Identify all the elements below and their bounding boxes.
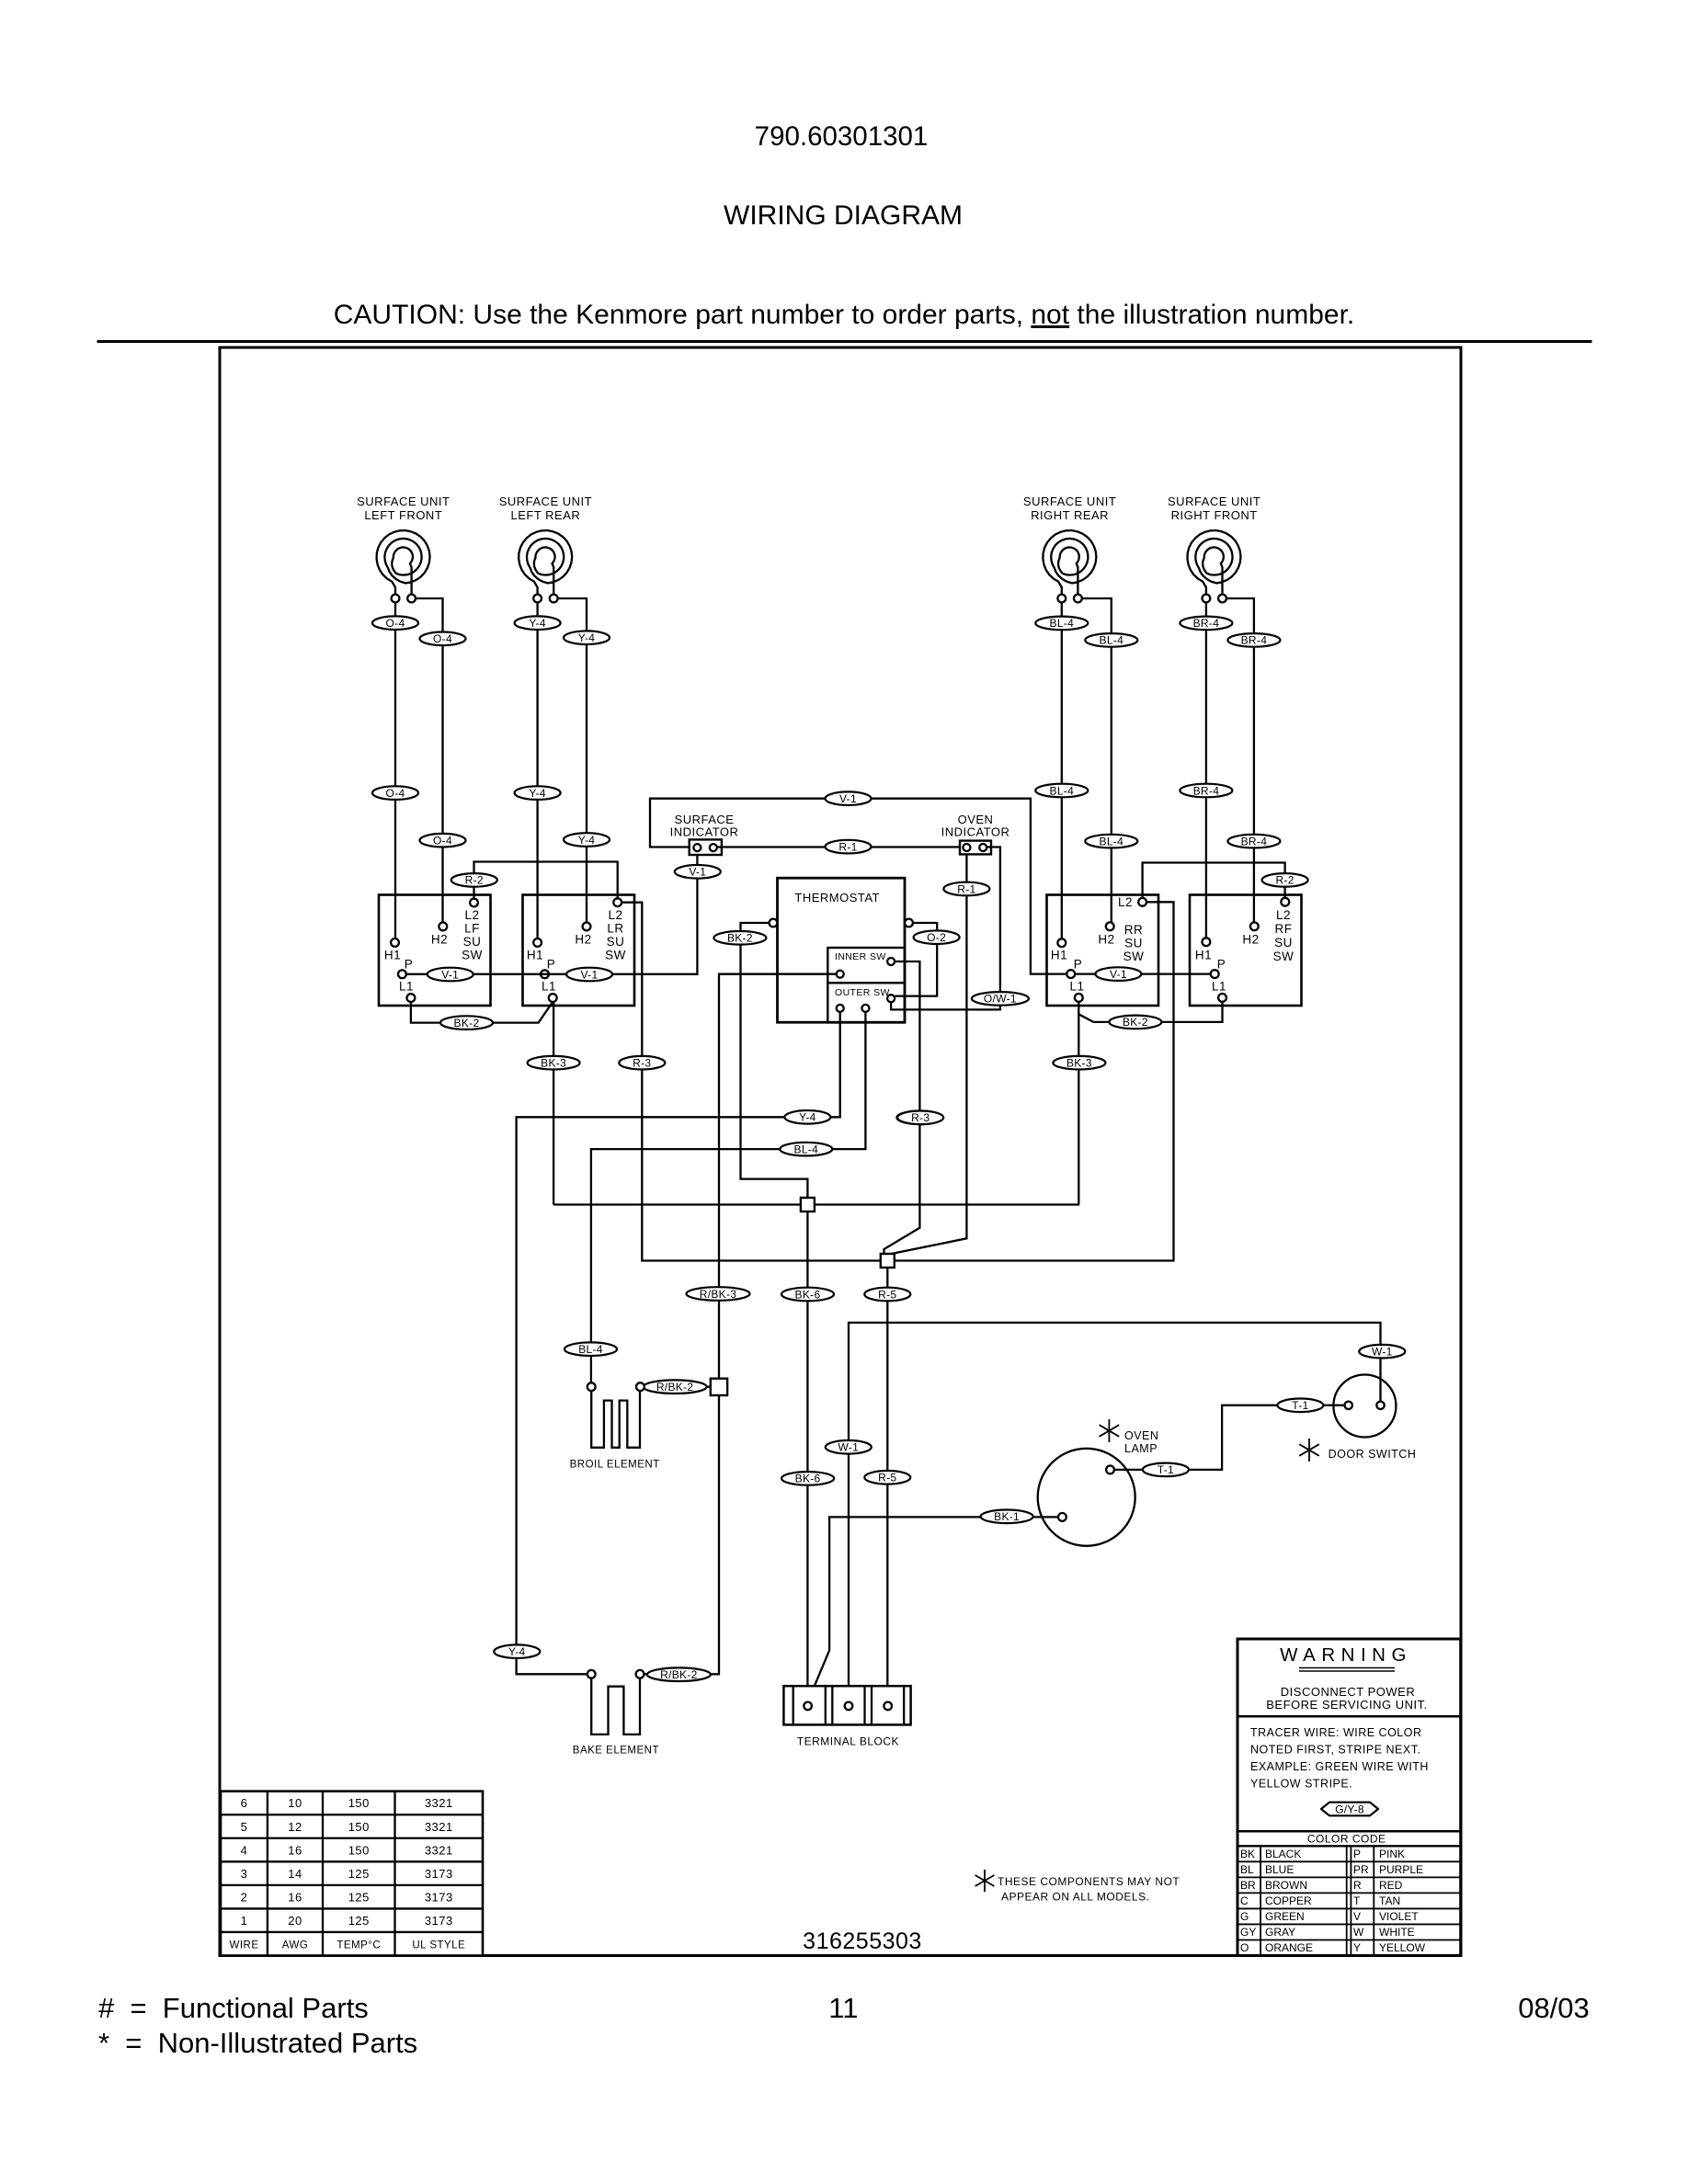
svg-text:BL-4: BL-4 [1100, 634, 1124, 647]
svg-text:11: 11 [828, 1992, 858, 2024]
outer switch terminal bottom mid [861, 1005, 869, 1012]
inner switch box [827, 948, 905, 983]
LF SU SW terminal L2 [470, 899, 478, 907]
junction square red [881, 1254, 895, 1268]
surface indicator box [690, 839, 722, 855]
thermostat box [778, 878, 906, 1022]
label oval Y-4 [564, 631, 610, 644]
label oval BL-4 [1035, 784, 1088, 798]
svg-text:L1: L1 [399, 980, 414, 994]
wire Y-4 outer switch to bake element [517, 1012, 840, 1674]
svg-text:O/W-1: O/W-1 [984, 993, 1017, 1006]
svg-text:V-1: V-1 [1110, 968, 1127, 981]
svg-text:125: 125 [348, 1890, 370, 1904]
LR SU SW terminal L2 [613, 898, 622, 906]
surface unit LEFT FRONT terminal H2 [407, 595, 416, 603]
svg-text:H2: H2 [1098, 933, 1114, 947]
outer switch box [827, 983, 905, 1022]
wire V-1 LF P to LR P to surface indicator [406, 852, 698, 974]
svg-text:INNER SW: INNER SW [835, 951, 886, 962]
junction square black [801, 1198, 815, 1211]
warning box [1237, 1639, 1461, 1956]
svg-text:V-1: V-1 [689, 866, 706, 879]
svg-text:BK-3: BK-3 [541, 1057, 566, 1070]
svg-text:RR: RR [1124, 923, 1144, 937]
label oval Y-4 vertical [494, 1644, 540, 1658]
svg-text:T-1: T-1 [1292, 1399, 1308, 1412]
svg-text:WARNING: WARNING [1280, 1644, 1412, 1666]
wire T-1 oven lamp to door switch [1114, 1405, 1344, 1470]
svg-text:APPEAR ON ALL MODELS.: APPEAR ON ALL MODELS. [1001, 1891, 1149, 1904]
svg-text:1: 1 [241, 1914, 248, 1928]
wire R-3 red junction to RR L2 [895, 902, 1174, 1260]
door switch terminal left [1345, 1402, 1352, 1409]
label oval BK-2 right bridge [1109, 1016, 1161, 1029]
label oval R/BK-3 [687, 1287, 750, 1301]
svg-text:SU: SU [1274, 936, 1293, 950]
svg-text:RF: RF [1275, 922, 1293, 936]
svg-text:R: R [1353, 1879, 1362, 1892]
RR H2 wire BL-4 [1082, 598, 1112, 923]
label oval BL-4 [1085, 633, 1137, 647]
oven indicator terminal right [979, 844, 987, 851]
svg-text:ORANGE: ORANGE [1265, 1941, 1313, 1954]
svg-text:P: P [405, 957, 414, 971]
LR H1 wire Y-4 [536, 602, 538, 938]
svg-text:SURFACE UNIT: SURFACE UNIT [357, 495, 450, 508]
oven lamp circle [1038, 1449, 1135, 1546]
svg-text:TAN: TAN [1379, 1894, 1400, 1907]
svg-text:WIRING DIAGRAM: WIRING DIAGRAM [724, 200, 963, 231]
wire R-3 LR L2 down to red junction [622, 903, 880, 1261]
warning divider 2 [1237, 1830, 1461, 1833]
LR SU SW terminal L1 [549, 994, 557, 1002]
terminal block terminal 2 [845, 1702, 853, 1711]
svg-text:V-1: V-1 [581, 968, 599, 981]
label oval T-1 left [1143, 1463, 1189, 1477]
svg-text:H1: H1 [527, 949, 543, 962]
svg-text:L2: L2 [608, 908, 622, 922]
svg-text:08/03: 08/03 [1518, 1992, 1590, 2024]
terminal block divider 5 [871, 1686, 873, 1724]
svg-text:R-3: R-3 [633, 1057, 651, 1070]
svg-text:UL STYLE: UL STYLE [412, 1940, 465, 1951]
label oval W-1 vertical [826, 1440, 872, 1454]
svg-text:3321: 3321 [425, 1796, 453, 1810]
label oval BK-2 thermostat [713, 931, 766, 945]
svg-text:R/BK-2: R/BK-2 [656, 1381, 694, 1393]
svg-text:SW: SW [1273, 950, 1295, 963]
svg-text:RIGHT FRONT: RIGHT FRONT [1171, 508, 1258, 522]
svg-text:V-1: V-1 [839, 792, 857, 805]
junction square R/BK [711, 1379, 727, 1395]
oven lamp star [1100, 1419, 1120, 1442]
RR SU SW terminal P [1066, 970, 1075, 978]
svg-text:Y-4: Y-4 [508, 1645, 525, 1658]
svg-text:H1: H1 [1051, 949, 1067, 962]
svg-text:BAKE ELEMENT: BAKE ELEMENT [573, 1746, 659, 1757]
wire BL-4 outer switch to broil element [591, 1012, 866, 1382]
svg-text:W-1: W-1 [838, 1441, 859, 1454]
svg-text:TRACER WIRE: WIRE COLOR: TRACER WIRE: WIRE COLOR [1250, 1726, 1422, 1739]
label oval R-2 left [451, 873, 497, 887]
svg-text:RED: RED [1379, 1879, 1403, 1892]
label oval BK-1 [981, 1510, 1033, 1524]
svg-text:BK-2: BK-2 [454, 1017, 480, 1029]
svg-text:150: 150 [348, 1820, 370, 1834]
label oval R-2 right [1262, 873, 1308, 887]
svg-text:3: 3 [241, 1867, 248, 1881]
svg-text:SURFACE UNIT: SURFACE UNIT [499, 495, 592, 508]
svg-text:# = Functional Parts: # = Functional Parts [98, 1992, 369, 2024]
svg-text:BK-6: BK-6 [795, 1288, 821, 1301]
svg-text:3173: 3173 [425, 1914, 453, 1928]
label oval G/Y-8 example [1321, 1803, 1378, 1816]
svg-text:Y: Y [1353, 1941, 1361, 1954]
svg-text:SW: SW [462, 949, 483, 962]
svg-text:3321: 3321 [425, 1820, 453, 1834]
label oval O-4 [372, 616, 418, 630]
label oval BL-4 vertical [565, 1342, 617, 1356]
svg-text:LAMP: LAMP [1124, 1442, 1158, 1455]
svg-text:BR-4: BR-4 [1241, 634, 1268, 647]
svg-text:THESE COMPONENTS MAY NOT: THESE COMPONENTS MAY NOT [998, 1875, 1180, 1888]
svg-text:R-3: R-3 [911, 1111, 930, 1124]
svg-text:BEFORE SERVICING UNIT.: BEFORE SERVICING UNIT. [1266, 1698, 1427, 1712]
svg-text:LR: LR [607, 922, 623, 936]
label oval R-3 inner [896, 1111, 942, 1125]
svg-text:BLUE: BLUE [1265, 1863, 1294, 1876]
svg-text:PURPLE: PURPLE [1379, 1863, 1423, 1876]
wire R/BK down to bake element [644, 1395, 719, 1675]
svg-text:16: 16 [288, 1890, 302, 1904]
warning divider 1 [1237, 1715, 1461, 1718]
svg-text:BR-4: BR-4 [1193, 784, 1220, 797]
wire BK-3 RR L1 down [1078, 1002, 1079, 1205]
svg-text:V-1: V-1 [441, 968, 459, 981]
label oval BK-3 right [1053, 1056, 1105, 1070]
svg-text:CAUTION: Use the Kenmore part: CAUTION: Use the Kenmore part number to … [334, 300, 1355, 330]
svg-text:SW: SW [1123, 950, 1145, 963]
svg-text:COLOR CODE: COLOR CODE [1307, 1833, 1386, 1846]
LF SU SW terminal L1 [407, 994, 416, 1002]
svg-text:Y-4: Y-4 [799, 1111, 815, 1124]
wire table column lines [267, 1792, 268, 1956]
svg-text:125: 125 [348, 1867, 370, 1881]
inner switch terminal left [837, 971, 844, 978]
surface unit RIGHT FRONT terminal H2 [1218, 595, 1226, 603]
label oval O-4 [420, 632, 466, 646]
svg-text:Y-4: Y-4 [529, 617, 545, 630]
svg-text:Y-4: Y-4 [529, 787, 545, 800]
surface indicator terminal left [693, 844, 701, 851]
label oval BL-4 [1035, 617, 1088, 631]
label oval V-1 in RR box [1095, 967, 1141, 981]
svg-text:W: W [1353, 1926, 1364, 1939]
surface unit LEFT FRONT terminal H1 [392, 595, 400, 603]
svg-text:OVEN: OVEN [1124, 1429, 1158, 1442]
wire V-1 surface indicator loop to RR P [650, 799, 1066, 974]
oven indicator box [960, 841, 991, 855]
svg-text:EXAMPLE: GREEN WIRE WITH: EXAMPLE: GREEN WIRE WITH [1250, 1760, 1429, 1773]
label oval R-3 left [619, 1056, 665, 1070]
label oval BK-6 upper [781, 1288, 834, 1302]
RF SU SW terminal L1 [1218, 994, 1226, 1002]
svg-text:VIOLET: VIOLET [1379, 1910, 1419, 1923]
svg-text:RIGHT REAR: RIGHT REAR [1031, 508, 1109, 522]
label oval BK-3 left [528, 1056, 580, 1070]
svg-text:TEMP°C: TEMP°C [336, 1940, 381, 1951]
label oval R/BK-2 bake [647, 1667, 711, 1681]
svg-text:4: 4 [241, 1843, 248, 1857]
svg-text:H2: H2 [575, 933, 591, 947]
svg-text:V: V [1353, 1910, 1361, 1923]
svg-text:R-1: R-1 [838, 840, 857, 853]
thermostat terminal right [905, 919, 913, 927]
svg-text:H1: H1 [384, 949, 401, 962]
svg-text:3321: 3321 [425, 1843, 453, 1857]
terminal block box [783, 1686, 910, 1724]
svg-text:YELLOW: YELLOW [1379, 1941, 1426, 1954]
svg-text:BLACK: BLACK [1265, 1848, 1301, 1860]
svg-text:COPPER: COPPER [1265, 1894, 1312, 1907]
svg-text:BK: BK [1240, 1848, 1255, 1860]
surface unit RIGHT REAR terminal H2 [1074, 595, 1082, 603]
surface unit RIGHT FRONT terminal H1 [1203, 595, 1211, 603]
bake element terminal right [636, 1670, 644, 1678]
svg-text:Y-4: Y-4 [578, 834, 595, 847]
svg-text:SU: SU [463, 935, 482, 949]
wire BK-3 LR L1 down [553, 1002, 554, 1205]
switch box LF SU SW [379, 895, 491, 1007]
svg-text:SU: SU [1124, 937, 1143, 950]
LF H1 wire O-4 [394, 602, 396, 938]
surface unit LEFT REAR coil element [519, 530, 572, 595]
LR SU SW terminal H1 [533, 938, 542, 947]
svg-text:BR-4: BR-4 [1193, 617, 1220, 630]
wire R-2 left LF L2 to LR L2 [474, 862, 618, 899]
surface unit LEFT REAR terminal H1 [533, 595, 542, 603]
surface unit RIGHT REAR terminal H1 [1057, 595, 1066, 603]
svg-text:O: O [1240, 1941, 1249, 1954]
label oval R-5 lower [864, 1471, 910, 1484]
switch box LR SU SW [523, 895, 635, 1007]
svg-text:L1: L1 [1069, 980, 1084, 994]
LR SU SW terminal P [541, 970, 549, 978]
wire R-1 oven indicator down to red junction [892, 855, 967, 1254]
label oval O-4 [420, 834, 466, 847]
wire R-1 surface indicator to oven indicator [717, 846, 960, 847]
svg-text:P: P [1353, 1848, 1361, 1860]
label oval V-1 in LF box [428, 968, 473, 982]
svg-text:W-1: W-1 [1372, 1346, 1393, 1359]
svg-text:O-4: O-4 [433, 835, 452, 847]
LF SU SW terminal P [398, 970, 406, 978]
svg-text:H2: H2 [431, 933, 448, 947]
svg-text:H2: H2 [1242, 933, 1259, 947]
svg-text:AWG: AWG [282, 1940, 309, 1951]
svg-text:LEFT FRONT: LEFT FRONT [364, 508, 442, 522]
terminal block divider 2 [825, 1686, 827, 1724]
terminal block divider 1 [793, 1686, 794, 1724]
label oval V-1 under surface indicator [675, 865, 721, 879]
label oval Y-4 horizontal [784, 1110, 830, 1124]
svg-text:20: 20 [288, 1914, 302, 1928]
svg-text:DISCONNECT POWER: DISCONNECT POWER [1281, 1685, 1415, 1699]
RR SU SW terminal H2 [1106, 922, 1114, 930]
oven lamp terminal top [1106, 1466, 1114, 1474]
svg-text:P: P [1074, 957, 1083, 971]
svg-text:14: 14 [288, 1867, 302, 1881]
svg-text:TERMINAL BLOCK: TERMINAL BLOCK [797, 1735, 899, 1748]
label oval BK-2 left bridge [440, 1016, 493, 1029]
svg-text:150: 150 [348, 1796, 370, 1810]
svg-text:O-4: O-4 [433, 632, 452, 645]
label oval V-1 in LR box [566, 968, 612, 982]
svg-text:BK-6: BK-6 [795, 1473, 821, 1485]
svg-text:BL-4: BL-4 [1050, 617, 1075, 630]
bake element [591, 1678, 640, 1735]
RF H2 wire BR-4 [1226, 598, 1254, 923]
label oval BR-4 [1180, 617, 1232, 631]
door switch circle [1333, 1375, 1396, 1438]
wire BK-1 terminal block to oven lamp [808, 1517, 1058, 1701]
label oval Y-4 [515, 616, 561, 630]
svg-text:150: 150 [348, 1843, 370, 1857]
svg-text:SURFACE UNIT: SURFACE UNIT [1168, 495, 1260, 508]
surface unit RIGHT REAR coil element [1043, 530, 1096, 595]
label oval Y-4 [515, 786, 561, 800]
label oval BR-4 [1227, 633, 1280, 647]
svg-text:L2: L2 [1118, 895, 1133, 909]
svg-text:LF: LF [464, 922, 480, 936]
svg-text:O-4: O-4 [386, 787, 405, 800]
svg-text:L1: L1 [542, 980, 556, 994]
svg-text:3173: 3173 [425, 1890, 453, 1904]
wire R-3 inner switch to red junction [884, 961, 920, 1254]
wire BK-2 LF L1 to LR L1 [411, 1002, 553, 1023]
svg-text:T: T [1353, 1894, 1361, 1907]
svg-text:BK-2: BK-2 [1123, 1016, 1148, 1029]
label oval BL-4 [1085, 835, 1137, 848]
svg-text:O-4: O-4 [386, 617, 405, 630]
RR SU SW terminal H1 [1057, 938, 1066, 947]
switch box RF SU SW [1190, 895, 1302, 1007]
svg-text:BK-1: BK-1 [994, 1510, 1020, 1523]
svg-text:NOTED FIRST, STRIPE NEXT.: NOTED FIRST, STRIPE NEXT. [1250, 1744, 1420, 1757]
header rule [97, 340, 1592, 343]
surface unit RIGHT FRONT coil element [1188, 530, 1241, 595]
label oval T-1 right [1277, 1399, 1323, 1413]
svg-text:OUTER SW: OUTER SW [835, 987, 890, 998]
wire R-2 right RR L2 to RF L2 [1143, 863, 1285, 898]
svg-text:BR-4: BR-4 [1241, 835, 1268, 847]
broil element [591, 1391, 640, 1448]
svg-text:BL-4: BL-4 [1050, 784, 1075, 797]
terminal block divider 3 [831, 1686, 833, 1724]
RF SU SW terminal H2 [1250, 922, 1259, 930]
wire R/BK-2 broil element [648, 1386, 710, 1388]
label oval O-2 [914, 930, 960, 944]
wire R-5 junction to terminal block [886, 1268, 888, 1702]
svg-text:BL-4: BL-4 [578, 1343, 603, 1356]
RF SU SW terminal L2 [1281, 898, 1289, 906]
note these components [975, 1870, 995, 1892]
wire gauge table [221, 1792, 483, 1956]
outer switch terminal right [887, 995, 895, 1002]
svg-text:T-1: T-1 [1158, 1463, 1174, 1476]
wire V-1 RR P to RF P [1075, 973, 1211, 974]
svg-text:THERMOSTAT: THERMOSTAT [794, 891, 880, 904]
LF SU SW terminal H1 [391, 938, 399, 947]
svg-text:C: C [1240, 1894, 1249, 1907]
svg-text:790.60301301: 790.60301301 [755, 121, 929, 152]
label oval O-4 [372, 786, 418, 800]
svg-text:GRAY: GRAY [1265, 1926, 1295, 1939]
door switch terminal right [1376, 1402, 1384, 1409]
LF H2 wire O-4 [416, 598, 443, 923]
wire W-1 terminal block to door switch [849, 1323, 1381, 1702]
svg-text:PR: PR [1353, 1863, 1369, 1876]
inner switch terminal right [887, 958, 895, 965]
terminal block terminal 1 [804, 1702, 812, 1711]
wire O-2 thermostat to outer switch [895, 923, 938, 996]
svg-text:BK-2: BK-2 [727, 932, 753, 945]
svg-text:O-2: O-2 [927, 931, 946, 944]
RR SU SW terminal L2 [1138, 898, 1146, 906]
svg-text:16: 16 [288, 1843, 302, 1857]
svg-text:DOOR SWITCH: DOOR SWITCH [1329, 1448, 1417, 1461]
RF SU SW terminal H1 [1203, 938, 1211, 946]
wire O/W-1 outer switch to oven indicator [891, 847, 1000, 1010]
oven lamp terminal left [1058, 1513, 1066, 1521]
label oval V-1 top [826, 791, 872, 805]
svg-text:2: 2 [241, 1890, 248, 1904]
svg-text:BL-4: BL-4 [1100, 835, 1124, 847]
thermostat terminal left [770, 919, 778, 927]
wire BK-2 thermostat to black junction [741, 923, 808, 1198]
svg-text:R-5: R-5 [878, 1288, 896, 1301]
LF SU SW terminal H2 [439, 923, 447, 931]
label oval R-3 mid [897, 1111, 943, 1125]
label oval BR-4 [1180, 784, 1232, 798]
svg-text:R-5: R-5 [878, 1472, 896, 1484]
svg-text:BROWN: BROWN [1265, 1879, 1307, 1892]
svg-text:SURFACE UNIT: SURFACE UNIT [1023, 495, 1116, 508]
svg-text:3173: 3173 [425, 1867, 453, 1881]
svg-text:Y-4: Y-4 [578, 631, 595, 644]
svg-text:G/Y-8: G/Y-8 [1335, 1803, 1364, 1815]
svg-text:R-2: R-2 [465, 874, 484, 887]
svg-text:BROIL ELEMENT: BROIL ELEMENT [570, 1460, 660, 1471]
wire BK-6 junction to terminal block [806, 1211, 808, 1702]
svg-text:R/BK-2: R/BK-2 [660, 1668, 698, 1681]
svg-text:WIRE: WIRE [229, 1940, 258, 1951]
RR SU SW terminal L1 [1075, 994, 1083, 1002]
RR H1 wire BL-4 [1061, 602, 1063, 938]
terminal block divider 4 [863, 1686, 865, 1724]
wire R/BK-3 inner switch to junction [719, 974, 837, 1379]
svg-text:12: 12 [288, 1820, 302, 1834]
svg-text:* = Non-Illustrated Parts: * = Non-Illustrated Parts [98, 2027, 417, 2059]
terminal block divider 6 [903, 1686, 905, 1724]
svg-text:BL-4: BL-4 [794, 1143, 819, 1155]
LR SU SW terminal H2 [583, 923, 591, 931]
svg-text:SW: SW [605, 949, 626, 962]
svg-text:P: P [1217, 957, 1226, 971]
svg-text:WHITE: WHITE [1379, 1926, 1415, 1939]
RF SU SW terminal P [1211, 970, 1219, 978]
